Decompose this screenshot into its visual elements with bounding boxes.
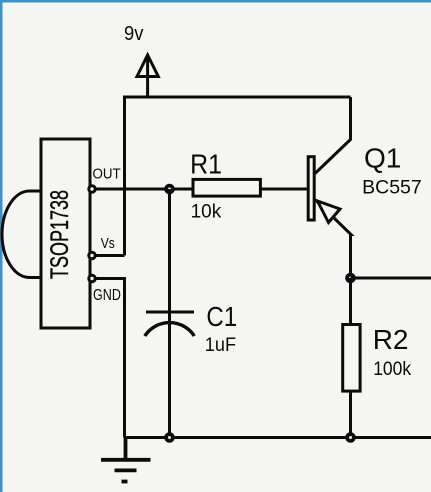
svg-text:BC557: BC557: [362, 176, 422, 198]
resistor R1 label: [190, 148, 222, 180]
svg-text:C1: C1: [206, 300, 237, 332]
transistor Q1 emitter arrow (PNP, pointing to base): [318, 201, 341, 223]
pin OUT label: [93, 166, 121, 183]
pin GND label: [93, 286, 121, 304]
pin Vs label: [101, 235, 115, 251]
transistor Q1 label: [364, 143, 401, 174]
pin GND circle: [89, 275, 95, 281]
resistor R1 body: [193, 179, 260, 196]
capacitor C1 lead wire (node A to ground rail): [168, 189, 171, 438]
pin OUT circle: [89, 186, 95, 192]
svg-text:100k: 100k: [373, 357, 412, 379]
wire Vs pin to supply rail: [95, 254, 125, 257]
node B junction dot (emitter / R2 / output): [347, 275, 354, 282]
IR receiver U1 TSOP1738 body: [2, 139, 90, 328]
resistor R2 label: [373, 324, 409, 355]
wire node B to right edge (output): [351, 277, 431, 280]
svg-text:Vs: Vs: [101, 235, 115, 251]
transistor Q1 base bar: [308, 157, 314, 220]
svg-text:GND: GND: [93, 286, 121, 304]
resistor R2 body: [343, 325, 360, 392]
power supply 9v label: [124, 24, 144, 46]
blue frame left edge: [0, 0, 3, 492]
blue frame top edge: [0, 0, 431, 3]
wire ground rail: [125, 436, 431, 439]
wire GND pin down to ground rail: [96, 279, 125, 438]
IR receiver U1 label TSOP1738: [45, 190, 74, 279]
transistor Q1 value BC557: [362, 176, 422, 198]
node A junction dot (OUT / R1 / C1): [166, 186, 173, 193]
resistor R2 bottom lead wire: [349, 391, 352, 437]
svg-text:1uF: 1uF: [205, 333, 236, 355]
svg-text:R1: R1: [190, 148, 222, 180]
svg-text:TSOP1738: TSOP1738: [45, 190, 74, 279]
resistor R2 value 100k: [373, 357, 412, 379]
svg-text:R2: R2: [373, 324, 409, 355]
transistor Q1 collector wire: [315, 97, 351, 174]
capacitor C1 curved bottom plate: [145, 323, 195, 336]
svg-text:Q1: Q1: [364, 143, 401, 174]
resistor R1 value 10k: [191, 201, 222, 222]
capacitor C1 top plate: [146, 311, 194, 314]
resistor R2 top lead wire: [349, 278, 352, 325]
svg-text:10k: 10k: [191, 201, 222, 222]
ground symbol: [101, 438, 151, 482]
capacitor C1 value 1uF: [205, 333, 236, 355]
pin Vs circle: [89, 252, 95, 258]
capacitor C1 label: [206, 300, 237, 332]
node D junction dot (R2 / rail): [347, 434, 354, 441]
wire OUT pin to base (through node A): [96, 188, 308, 191]
svg-text:OUT: OUT: [93, 166, 121, 183]
svg-text:9v: 9v: [124, 24, 144, 46]
node C junction dot (C1 / rail): [166, 434, 173, 441]
transistor Q1 emitter wire: [316, 200, 352, 278]
wire top rail from supply corner to collector: [125, 97, 351, 256]
power supply arrow symbol: [137, 55, 158, 97]
